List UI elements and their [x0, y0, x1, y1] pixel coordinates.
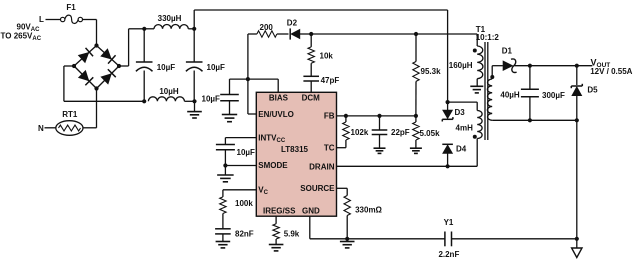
wire	[46, 19, 61, 21]
node	[142, 99, 146, 103]
wire VIN+ rail	[194, 10, 447, 102]
winding 160uH bias	[449, 46, 483, 79]
resistor 95.3k	[413, 34, 441, 116]
node BIAS	[246, 77, 250, 81]
diode D3 zener	[442, 102, 465, 121]
inductor 10uH	[148, 87, 194, 101]
wire	[492, 66, 503, 79]
wire output return	[492, 119, 577, 121]
svg-text:330µH: 330µH	[158, 14, 182, 23]
node	[192, 99, 196, 103]
label 4mH	[456, 124, 474, 133]
svg-text:100k: 100k	[235, 199, 253, 208]
node N (AC neutral input)	[38, 124, 44, 133]
wire TC pin	[337, 147, 346, 149]
wire	[416, 34, 477, 46]
resistor 5.05k	[413, 116, 440, 148]
capacitor Y1 2.2nF	[347, 218, 577, 259]
node bridge right	[117, 64, 121, 68]
ground	[470, 79, 483, 93]
ground earth	[572, 239, 582, 258]
capacitor 10uF bias	[202, 79, 248, 114]
svg-text:4mH: 4mH	[456, 124, 474, 133]
resistor 102k	[343, 116, 369, 148]
capacitor 300uF	[521, 66, 565, 121]
svg-text:10µF: 10µF	[202, 95, 221, 104]
capacitor 47pF	[303, 63, 339, 92]
node bridge bottom	[94, 86, 98, 90]
svg-text:160µH: 160µH	[449, 61, 473, 70]
svg-text:47pF: 47pF	[321, 76, 340, 85]
node	[575, 118, 579, 122]
svg-text:GND: GND	[302, 207, 320, 216]
ground	[374, 148, 386, 153]
svg-text:D3: D3	[455, 108, 466, 117]
wire	[576, 120, 578, 239]
svg-text:12V / 0.55A: 12V / 0.55A	[590, 67, 632, 76]
node	[344, 114, 348, 118]
wire VOUT rail	[515, 65, 593, 67]
svg-text:200: 200	[260, 23, 274, 32]
svg-text:82nF: 82nF	[235, 230, 254, 239]
node	[223, 163, 227, 167]
svg-text:DRAIN: DRAIN	[309, 163, 335, 172]
svg-text:D1: D1	[502, 47, 513, 56]
node winding dot	[473, 135, 477, 139]
wire	[119, 29, 144, 66]
resistor 100k	[220, 190, 254, 214]
ground	[269, 239, 284, 251]
svg-text:5.9k: 5.9k	[284, 230, 300, 239]
diode D1	[502, 47, 517, 73]
op-amp U1 LT8315 converter IC	[256, 92, 336, 216]
wire SMODE pin	[225, 165, 256, 167]
resistor 330mOhm	[337, 188, 383, 239]
capacitor 22pF	[372, 116, 410, 148]
svg-text:10µF: 10µF	[207, 63, 226, 72]
ground	[222, 115, 237, 122]
svg-text:EN/UVLO: EN/UVLO	[258, 110, 294, 119]
svg-text:40µH: 40µH	[500, 91, 520, 100]
ground	[187, 101, 202, 118]
transformer T1 labels	[476, 25, 500, 42]
winding 40uH secondary	[487, 79, 520, 120]
node	[414, 114, 418, 118]
wire	[448, 102, 478, 110]
svg-text:FB: FB	[324, 112, 335, 121]
svg-text:5.05k: 5.05k	[420, 129, 441, 138]
svg-text:LT8315: LT8315	[281, 145, 309, 154]
winding 4mH primary	[477, 111, 482, 139]
node	[345, 237, 349, 241]
wire	[476, 139, 478, 167]
svg-text:F1: F1	[66, 3, 76, 12]
svg-text:D2: D2	[287, 19, 298, 28]
svg-text:10k: 10k	[320, 52, 334, 61]
svg-text:IREG/SS: IREG/SS	[263, 207, 296, 216]
svg-text:N: N	[38, 124, 44, 133]
node	[575, 64, 579, 68]
label VOUT	[590, 58, 632, 76]
svg-text:SOURCE: SOURCE	[300, 184, 335, 193]
node	[446, 164, 450, 168]
node	[414, 32, 418, 36]
diode D2	[277, 19, 311, 40]
svg-text:10µH: 10µH	[159, 87, 179, 96]
ground	[217, 166, 234, 182]
node	[575, 237, 579, 241]
svg-text:10:1:2: 10:1:2	[476, 33, 500, 42]
node	[377, 114, 381, 118]
fuse F1	[61, 3, 83, 23]
node	[528, 118, 532, 122]
svg-text:330mΩ: 330mΩ	[355, 206, 382, 215]
svg-text:D5: D5	[587, 86, 598, 95]
wire DRAIN pin	[337, 165, 478, 167]
capacitor 10uF first	[136, 29, 175, 102]
svg-text:RT1: RT1	[62, 110, 78, 119]
transformer core	[485, 42, 488, 140]
svg-text:10µF: 10µF	[157, 63, 176, 72]
wire	[247, 34, 249, 79]
thermistor RT1	[56, 110, 83, 135]
ground	[216, 242, 231, 248]
diode bridge BR1	[74, 46, 119, 89]
svg-text:10µF: 10µF	[237, 148, 256, 157]
node winding dot	[490, 75, 494, 79]
capacitor 10uF second	[186, 29, 225, 102]
resistor 10k	[308, 34, 333, 63]
svg-text:DCM: DCM	[302, 94, 321, 103]
svg-text:SMODE: SMODE	[258, 161, 288, 170]
svg-text:102k: 102k	[351, 128, 369, 137]
wire	[83, 89, 97, 128]
inductor 330uH	[144, 14, 194, 29]
node L (AC line input)	[39, 15, 44, 24]
capacitor 10uF intvcc	[216, 138, 256, 166]
wire VC pin	[223, 189, 256, 191]
wire EN/UVLO pin	[248, 79, 256, 114]
ground	[340, 239, 355, 248]
diode D4	[442, 144, 467, 166]
wire	[83, 20, 97, 46]
node	[528, 64, 532, 68]
svg-text:Y1: Y1	[444, 218, 454, 227]
node bridge left	[72, 64, 76, 68]
svg-text:L: L	[39, 15, 44, 24]
wire BIAS pin	[248, 79, 278, 92]
resistor 5.9k	[273, 216, 300, 239]
resistor 200	[248, 23, 277, 37]
wire GND pin	[310, 216, 347, 239]
label input voltage range	[1, 23, 42, 43]
node winding dot	[473, 49, 477, 53]
node	[192, 27, 196, 31]
wire	[311, 33, 416, 35]
wire	[45, 127, 56, 129]
svg-text:D4: D4	[456, 145, 467, 154]
node	[309, 32, 313, 36]
svg-text:2.2nF: 2.2nF	[438, 250, 459, 259]
node primary top	[446, 100, 450, 104]
wire FB pin	[337, 115, 416, 117]
svg-text:BIAS: BIAS	[269, 94, 289, 103]
ground	[410, 148, 422, 153]
wire	[64, 66, 144, 101]
svg-text:300µF: 300µF	[542, 91, 565, 100]
svg-text:22pF: 22pF	[391, 128, 410, 137]
node	[142, 27, 146, 31]
diode D5 zener	[571, 66, 598, 121]
capacitor 82nF	[215, 214, 254, 242]
node bridge top	[94, 43, 98, 47]
svg-text:95.3k: 95.3k	[421, 67, 442, 76]
svg-text:TC: TC	[324, 143, 335, 152]
